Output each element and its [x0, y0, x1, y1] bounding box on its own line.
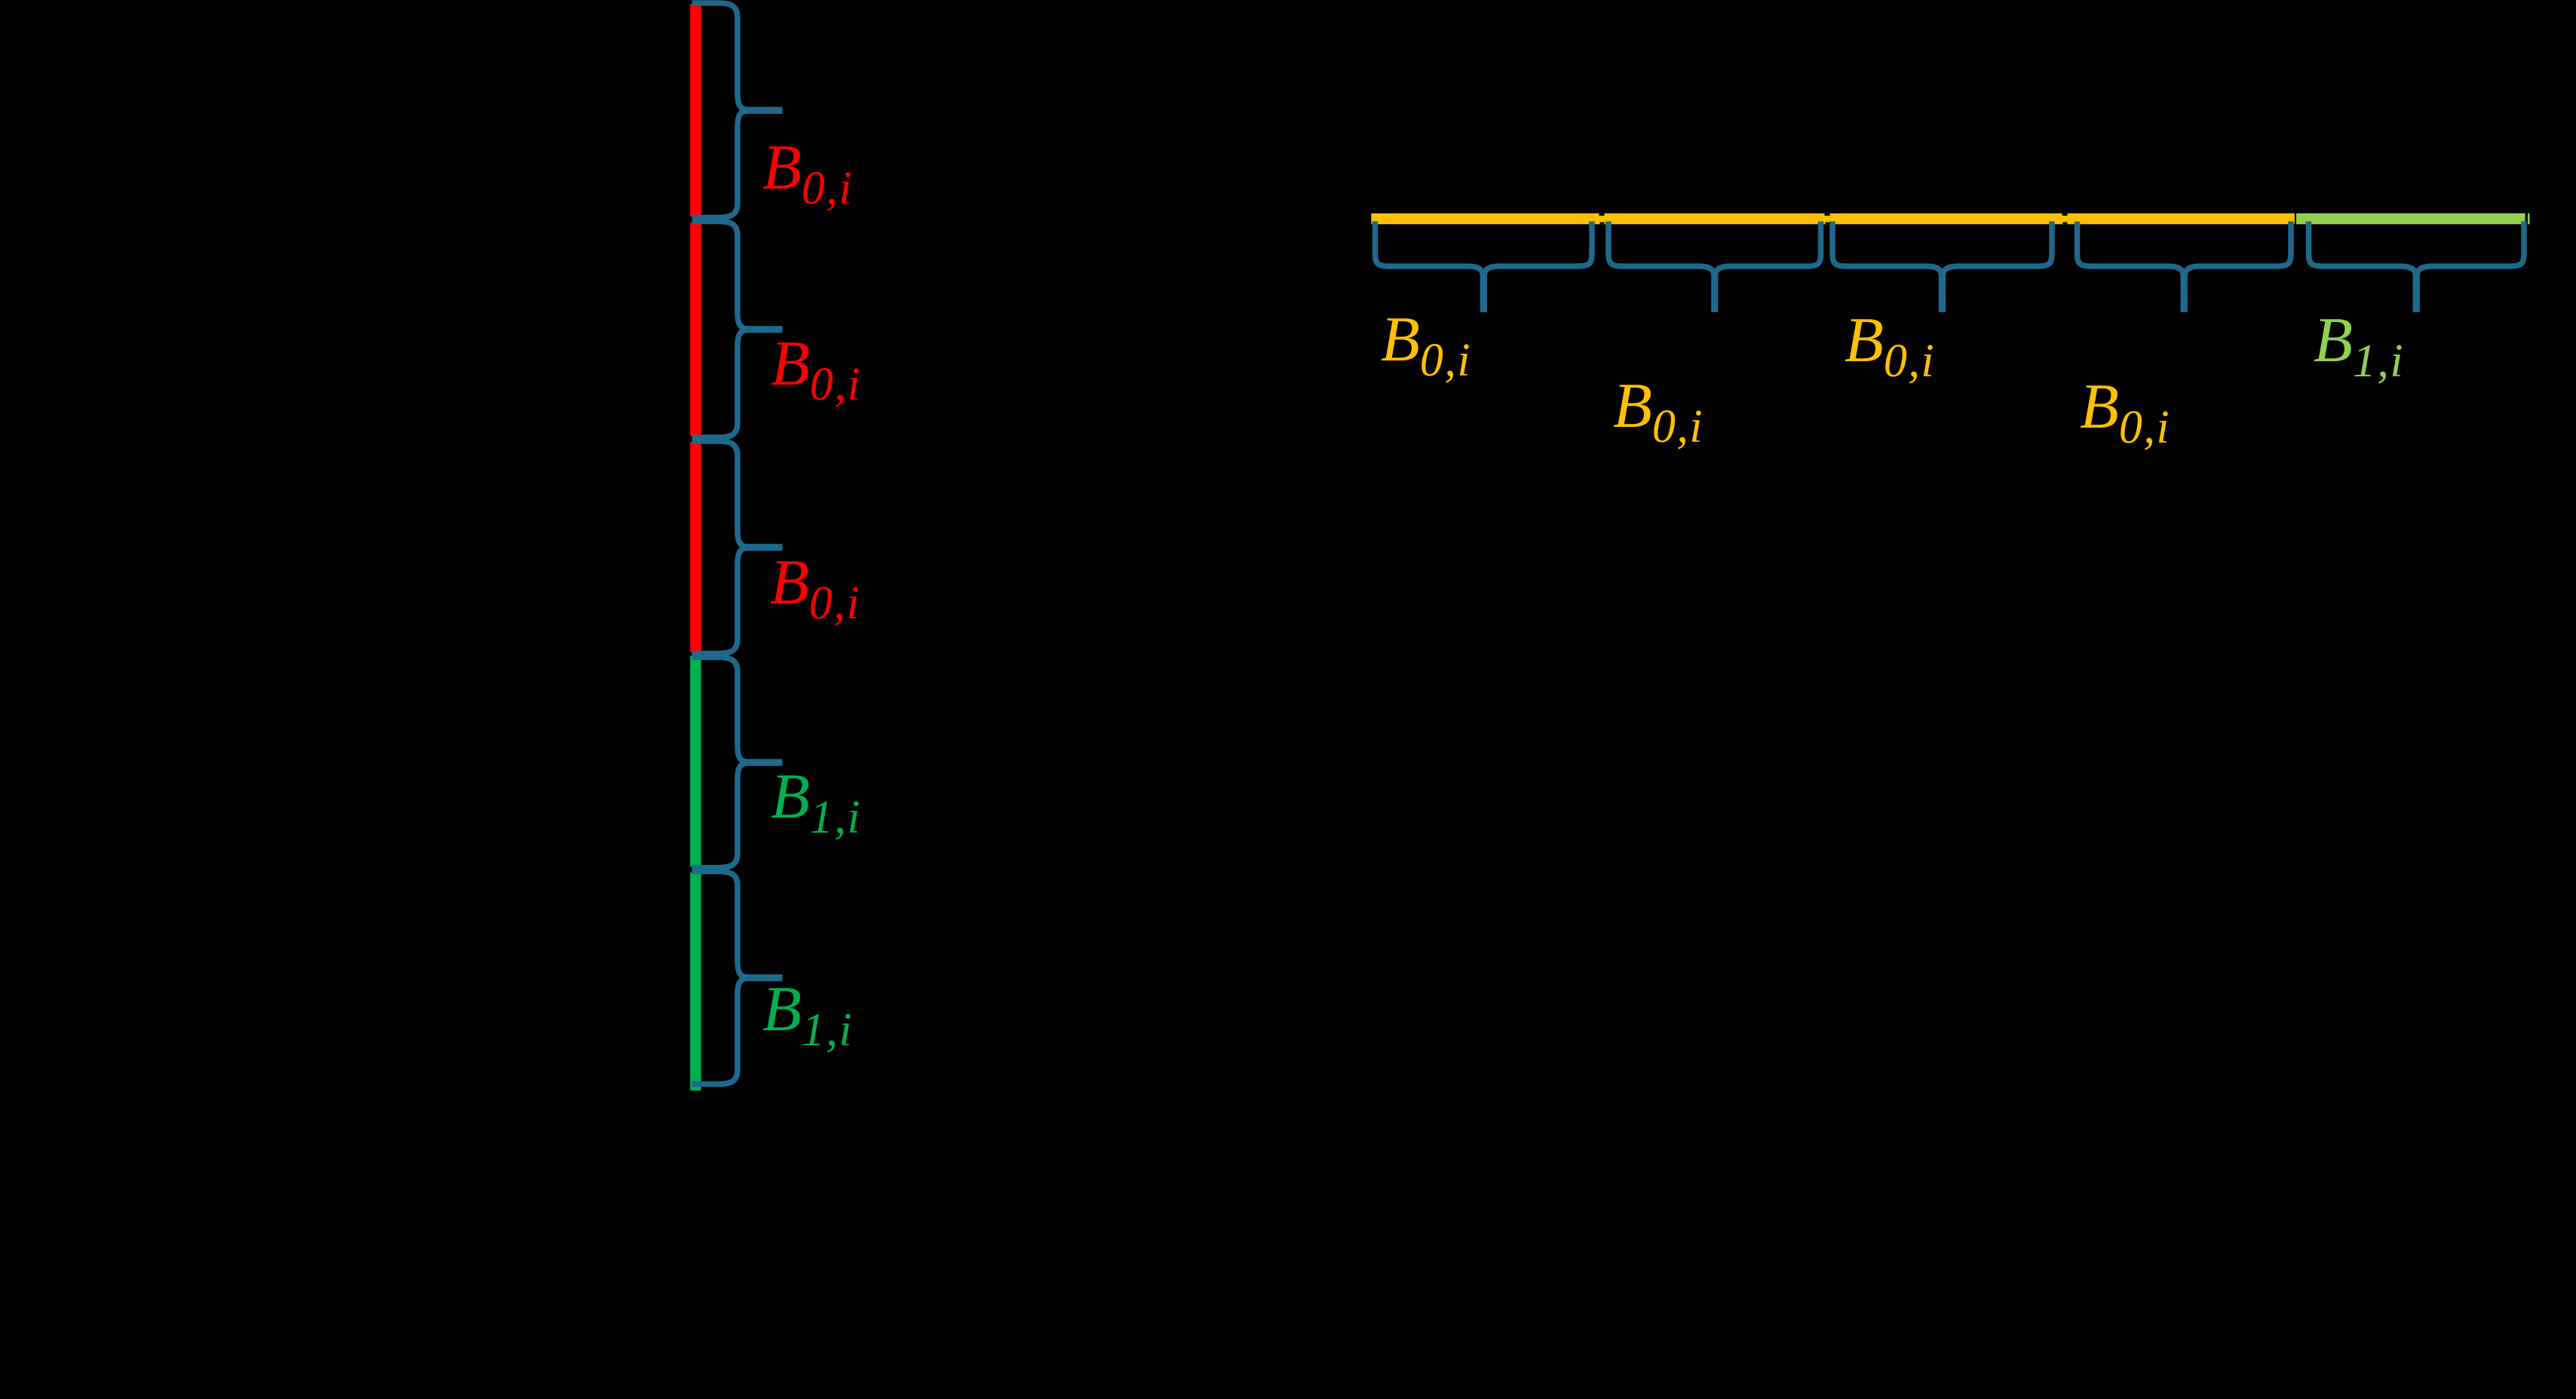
notch 2: [1825, 213, 1830, 216]
brace H5: [2309, 222, 2525, 313]
green segment 4 (vertical line): [690, 656, 701, 867]
green line (right diagram): [2296, 213, 2525, 225]
label B0,i left #1: [762, 136, 853, 200]
label B0,i right #3: [1845, 308, 1935, 373]
notch 3: [2062, 213, 2068, 216]
brace H4: [2078, 222, 2292, 313]
brace H2: [1608, 222, 1821, 313]
brace V1: [692, 3, 783, 218]
red segment 3 (vertical line): [690, 442, 701, 652]
green segment 5 (vertical line): [690, 873, 701, 1091]
notch 1: [1599, 213, 1605, 216]
label B1,i right #5: [2314, 308, 2404, 373]
red segment 1 (vertical line): [690, 4, 701, 216]
label B0,i right #1: [1381, 308, 1471, 372]
red segment 2 (vertical line): [690, 222, 701, 437]
brace V2: [692, 222, 783, 438]
label B0,i left #3: [770, 551, 860, 615]
brace V3: [692, 441, 783, 654]
label B1,i left #5: [762, 977, 853, 1042]
brace V5: [692, 872, 783, 1085]
label B0,i right #2: [1613, 374, 1704, 438]
yellow line (right diagram): [1371, 213, 2294, 225]
label B0,i right #4: [2080, 375, 2170, 439]
brace H3: [1832, 222, 2052, 313]
label B0,i left #2: [771, 332, 861, 396]
label B1,i left #4: [771, 765, 861, 829]
brace H1: [1375, 222, 1593, 313]
brace V4: [692, 658, 783, 868]
green end tick: [2528, 213, 2530, 225]
